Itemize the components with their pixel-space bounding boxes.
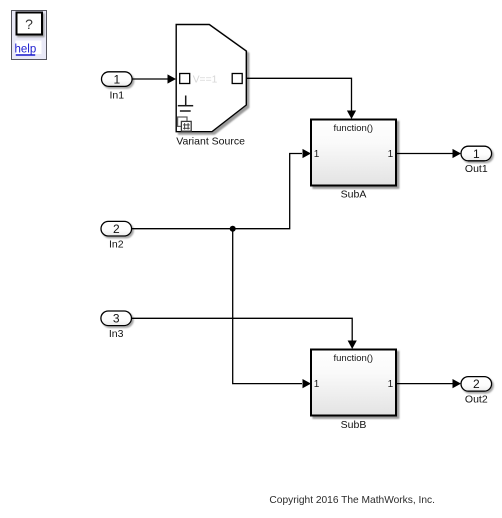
- inport In1: [102, 72, 133, 102]
- svg-text:1: 1: [473, 147, 480, 161]
- inactive-port ground symbol: [178, 96, 193, 112]
- wire SubA to Out1: [397, 149, 461, 158]
- help annotation box: [12, 11, 47, 60]
- junction node on In2 wire: [230, 226, 236, 232]
- outport Out1: [461, 146, 492, 175]
- svg-text:Out1: Out1: [465, 163, 488, 175]
- svg-text:1: 1: [113, 72, 120, 86]
- svg-text:help: help: [15, 43, 37, 55]
- svg-text:1: 1: [314, 379, 320, 390]
- svg-text:Copyright 2016 The MathWorks,: Copyright 2016 The MathWorks, Inc.: [269, 495, 435, 506]
- svg-text:function(): function(): [333, 353, 373, 364]
- inport In2: [101, 221, 132, 250]
- svg-text:function(): function(): [333, 123, 373, 134]
- svg-text:SubA: SubA: [341, 189, 367, 201]
- inport In3: [101, 311, 132, 340]
- wire Variant Source to SubA: [246, 78, 356, 119]
- wire In2 to SubA input: [132, 149, 311, 229]
- wire SubB to Out2: [397, 379, 461, 388]
- svg-text:1: 1: [388, 379, 394, 390]
- outport Out2: [461, 377, 492, 406]
- variant source output port square: [232, 74, 242, 84]
- svg-text:Out2: Out2: [465, 394, 488, 406]
- wire junction down to SubB input: [233, 229, 311, 389]
- svg-text:1: 1: [388, 149, 394, 160]
- variant source input port square: [180, 74, 190, 84]
- svg-text:?: ?: [25, 16, 33, 32]
- svg-text:SubB: SubB: [341, 419, 367, 431]
- variant badge icon: [178, 117, 192, 131]
- wire In3 to SubB top: [132, 318, 357, 349]
- svg-text:In2: In2: [109, 238, 124, 250]
- svg-text:2: 2: [473, 377, 480, 391]
- svg-text:1: 1: [314, 149, 320, 160]
- wire In1 to Variant Source: [132, 74, 176, 83]
- svg-text:In3: In3: [109, 328, 124, 340]
- subsystem SubB: [311, 350, 396, 432]
- variant source block U1: [176, 25, 246, 148]
- svg-text:2: 2: [113, 222, 120, 236]
- svg-text:Variant Source: Variant Source: [176, 136, 245, 148]
- svg-text:3: 3: [113, 312, 120, 326]
- svg-text:In1: In1: [109, 89, 124, 101]
- subsystem SubA: [311, 120, 396, 201]
- svg-text:V==1: V==1: [193, 74, 218, 85]
